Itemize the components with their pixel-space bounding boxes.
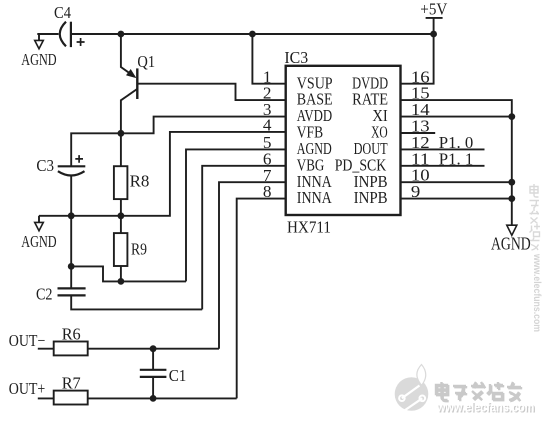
svg-text:R8: R8 [130, 172, 150, 191]
svg-text:R9: R9 [131, 239, 147, 258]
svg-text:www.elecfuns.com: www.elecfuns.com [531, 253, 542, 332]
svg-text:C3: C3 [36, 156, 54, 175]
svg-text:R7: R7 [62, 374, 81, 393]
svg-text:4: 4 [263, 116, 272, 135]
svg-text:8: 8 [263, 182, 272, 201]
svg-text:OUT+: OUT+ [9, 379, 46, 398]
svg-text:OUT−: OUT− [9, 331, 46, 350]
svg-text:P1. 1: P1. 1 [439, 149, 474, 168]
svg-text:www.elecfans.com: www.elecfans.com [436, 401, 534, 415]
svg-text:HX711: HX711 [287, 217, 331, 236]
svg-text:C4: C4 [54, 3, 71, 22]
svg-text:9: 9 [411, 182, 420, 201]
svg-text:R6: R6 [62, 325, 81, 344]
svg-text:Q1: Q1 [137, 52, 155, 71]
svg-text:INNA: INNA [297, 188, 333, 207]
svg-text:AGND: AGND [491, 234, 531, 254]
svg-text:AGND: AGND [21, 232, 56, 251]
svg-text:C1: C1 [169, 366, 187, 385]
svg-text:IC3: IC3 [284, 48, 308, 67]
svg-text:+5V: +5V [420, 0, 448, 19]
svg-text:INPB: INPB [354, 188, 388, 207]
svg-text:C2: C2 [36, 285, 53, 304]
svg-text:AGND: AGND [21, 50, 56, 69]
